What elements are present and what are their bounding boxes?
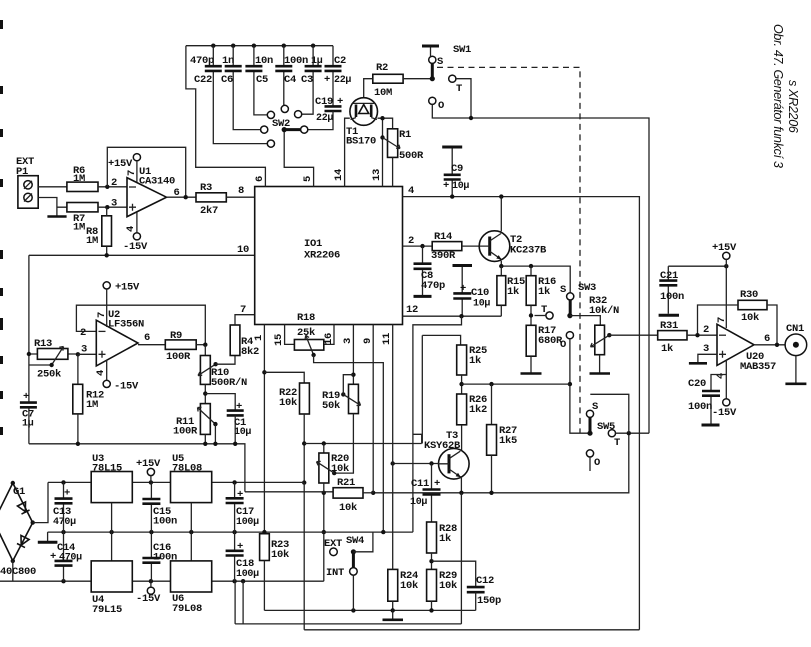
-15V terminal [147, 587, 154, 594]
svg-text:R18: R18 [297, 312, 315, 324]
+15V supply U2 [103, 282, 110, 289]
svg-text:1k: 1k [538, 286, 550, 298]
svg-text:10µ: 10µ [473, 299, 490, 310]
resistor R16 1k [530, 266, 532, 276]
svg-text:7: 7 [240, 304, 246, 316]
svg-text:10k: 10k [400, 580, 418, 592]
pot R11 100R [200, 404, 210, 435]
transistor T2 KC237B [479, 231, 510, 262]
resistor R15 1k [500, 266, 502, 276]
svg-text:100R: 100R [173, 426, 198, 438]
svg-text:250k: 250k [37, 369, 61, 381]
wire R8 stubs [106, 207, 108, 255]
svg-text:+: + [237, 489, 243, 501]
svg-text:+: + [460, 283, 466, 295]
svg-text:+: + [50, 551, 56, 563]
wire T3 emitter row [373, 433, 629, 493]
svg-text:Obr. 47. Generátor funkcí 3: Obr. 47. Generátor funkcí 3 [771, 24, 785, 168]
svg-text:150p: 150p [477, 595, 501, 607]
resistor R7 1M [67, 203, 98, 212]
capacitor C16 100n [150, 532, 152, 581]
svg-text:1k: 1k [469, 355, 481, 367]
svg-text:O: O [594, 457, 600, 469]
svg-text:500R: 500R [399, 150, 424, 162]
resistor R27 1k5 [491, 384, 493, 425]
svg-text:+: + [237, 541, 243, 553]
wire IC pin12 row [403, 315, 502, 317]
resistor R29 10k [427, 569, 437, 601]
svg-text:LF356N: LF356N [108, 319, 144, 331]
wire T3 emitter down [460, 493, 462, 624]
dashed link SW1 to SW5 [437, 67, 580, 433]
svg-text:3: 3 [342, 338, 354, 344]
ground R32 [590, 372, 611, 375]
wire row y443 right segment [304, 443, 422, 445]
svg-text:+: + [64, 488, 70, 500]
svg-text:100n: 100n [153, 516, 177, 528]
wire IC pin4 row [403, 197, 640, 630]
wire SW4 common to 0V rail [353, 532, 373, 552]
capacitor C7 1u [20, 403, 37, 408]
svg-text:4: 4 [95, 370, 107, 376]
resistor R24 10k [388, 569, 398, 601]
svg-text:10k: 10k [279, 397, 297, 409]
resistor R4 8k2 [230, 325, 240, 356]
svg-text:C20: C20 [688, 378, 706, 390]
svg-text:6: 6 [144, 332, 150, 344]
wire R9 to node [196, 344, 205, 346]
left page-edge tick marks [0, 20, 3, 435]
svg-text:KSY62B: KSY62B [424, 440, 461, 452]
svg-text:10k: 10k [741, 312, 759, 324]
svg-text:2: 2 [408, 235, 414, 247]
svg-text:100n: 100n [153, 552, 177, 564]
resistor R12 1M [73, 384, 83, 414]
op-amp U20 MAB357 [717, 324, 754, 365]
capacitor C18 100u [234, 532, 236, 581]
wire IC pin3 vertical / R19 [352, 325, 354, 385]
capacitor C14 470u [63, 532, 65, 581]
wire left vertical x29 [28, 255, 30, 443]
wire x304 down to bottom row [303, 483, 305, 630]
svg-text:40C800: 40C800 [0, 566, 36, 578]
wire pin1 row to R22 [264, 372, 304, 383]
transistor T1 BS170 [350, 98, 378, 126]
node pin2 [105, 185, 109, 189]
node U2 pin3 [76, 352, 80, 356]
svg-text:14: 14 [333, 169, 345, 181]
capacitor C1 10u [227, 411, 244, 416]
capacitor C8 470p [422, 246, 424, 295]
svg-text:SW1: SW1 [453, 44, 471, 56]
svg-text:12: 12 [406, 304, 418, 316]
wire SW3 common to R32 [570, 316, 600, 326]
svg-text:R1: R1 [399, 129, 411, 141]
svg-text:CN1: CN1 [786, 323, 804, 335]
svg-text:+15V: +15V [115, 282, 140, 294]
svg-text:INT: INT [326, 567, 344, 579]
0V mid rail [48, 531, 413, 533]
svg-text:10k: 10k [331, 463, 349, 475]
svg-text:10µ: 10µ [452, 181, 469, 192]
svg-text:11: 11 [381, 333, 393, 345]
wire SW3 O down to SW5 [570, 339, 588, 433]
svg-text:T: T [541, 304, 547, 316]
node U1 output [184, 195, 188, 199]
wire R18 wiper row to x383 [314, 355, 384, 532]
svg-text:+: + [434, 478, 440, 490]
svg-text:16: 16 [323, 333, 335, 345]
pot R1 500R [388, 129, 398, 158]
svg-text:10µ: 10µ [234, 427, 251, 438]
wire -rail stub x235 to y624 row [234, 581, 236, 624]
wire P1 bottom to ground and R7 [38, 198, 67, 216]
svg-text:1M: 1M [73, 222, 85, 234]
svg-text:13: 13 [371, 169, 383, 181]
svg-text:4: 4 [408, 185, 414, 197]
svg-text:3: 3 [111, 198, 117, 210]
svg-text:-15V: -15V [712, 407, 737, 419]
ground bottom [392, 610, 394, 618]
IC IO1 XR2206 [255, 187, 403, 325]
svg-text:4: 4 [125, 226, 137, 232]
wire R7 to U1 pin3 [98, 206, 127, 208]
svg-text:XR2206: XR2206 [304, 250, 340, 262]
svg-text:6: 6 [254, 176, 266, 182]
svg-text:O: O [438, 100, 444, 112]
wire IC pin11 vertical [392, 325, 394, 464]
wire P1 top to R6 [38, 186, 67, 188]
wire IC pin7 row [235, 315, 255, 325]
svg-text:100n: 100n [688, 401, 712, 413]
svg-text:100R: 100R [166, 351, 191, 363]
svg-text:5: 5 [302, 176, 314, 182]
wire IC pin9 vertical [372, 325, 374, 493]
svg-text:10k: 10k [339, 502, 357, 514]
wire U20 pin4 to -15V [725, 361, 727, 399]
svg-text:10: 10 [237, 244, 249, 256]
svg-text:C6: C6 [221, 74, 233, 86]
diode G1 lower [17, 535, 29, 547]
ground at P1 [47, 215, 66, 218]
svg-text:+15V: +15V [136, 458, 161, 470]
wire IC pin1 vertical [263, 325, 265, 534]
svg-text:100µ: 100µ [236, 517, 259, 528]
svg-text:IO1: IO1 [304, 238, 322, 250]
wire U1 feedback loop [107, 147, 185, 197]
svg-text:2: 2 [111, 177, 117, 189]
svg-text:C12: C12 [476, 575, 494, 587]
svg-text:-15V: -15V [136, 593, 161, 605]
capacitor C10 10u [453, 264, 473, 267]
wire R30 feedback loop [698, 305, 778, 345]
wire R3 to IC pin 8 [226, 196, 254, 198]
op-amp U1 CA3140 [127, 178, 167, 217]
wire U20 output [754, 344, 785, 346]
wire bridge bottom to -rail [12, 561, 14, 581]
wire R13 to U2 pin3 [78, 353, 96, 355]
svg-text:C11: C11 [411, 478, 429, 490]
svg-text:C9: C9 [451, 163, 463, 175]
svg-text:+: + [236, 401, 242, 413]
-15V supply U1 [133, 233, 140, 240]
capacitor C17 100u [234, 482, 236, 532]
wire bridge to +rail [33, 482, 48, 522]
op-amp U2 LF356N [96, 320, 138, 366]
resistor R28 1k [427, 522, 437, 553]
svg-text:S: S [560, 284, 566, 296]
svg-text:-15V: -15V [123, 241, 148, 253]
capacitor C13 470u [63, 482, 65, 532]
svg-text:SW3: SW3 [578, 282, 596, 294]
svg-text:1: 1 [253, 335, 265, 341]
pot R20 10k [323, 444, 325, 454]
svg-text:1µ: 1µ [22, 419, 34, 430]
svg-text:CA3140: CA3140 [139, 176, 175, 188]
wire U2 output to R9 [138, 344, 165, 346]
wire R6 to U1 pin2 [98, 186, 127, 188]
wire U20 pin3 to ground [698, 354, 717, 362]
svg-text:+: + [324, 74, 330, 86]
svg-text:680R: 680R [538, 335, 563, 347]
wire row y630 [304, 629, 639, 631]
wire SW5 T-net upper loop [590, 394, 629, 433]
svg-text:1k5: 1k5 [499, 435, 517, 447]
wire R2 left to T1 drain [364, 79, 373, 98]
svg-text:C4: C4 [284, 74, 296, 86]
pot R19 50k [349, 384, 359, 413]
svg-text:2: 2 [80, 327, 86, 339]
svg-text:C3: C3 [301, 74, 313, 86]
svg-text:10k: 10k [439, 580, 457, 592]
resistor R25 1k [457, 345, 467, 375]
svg-text:-15V: -15V [114, 381, 139, 393]
resistor R23 10k [260, 534, 270, 561]
wire U1 output to R3 [167, 196, 197, 198]
svg-text:2: 2 [703, 324, 709, 336]
wire R14 to T2 base [462, 245, 479, 247]
svg-text:MAB357: MAB357 [740, 361, 776, 373]
-15V rail [0, 580, 324, 582]
wire C21 to +15V [668, 265, 726, 267]
svg-text:1M: 1M [86, 399, 98, 411]
svg-text:79L08: 79L08 [172, 603, 202, 615]
diode G1 upper [17, 502, 29, 514]
wire U2 feedback loop [76, 305, 205, 345]
svg-text:7: 7 [126, 170, 138, 176]
wire -rail stub x243 to y624 row [242, 581, 244, 624]
wire R31 left jog to y443 net [422, 335, 460, 443]
svg-text:15: 15 [273, 334, 285, 346]
connector P1 [18, 176, 38, 209]
pot R10 500R/N [204, 345, 206, 356]
wire row y624 [235, 623, 461, 625]
svg-text:9: 9 [362, 338, 374, 344]
wire IC pin13 from T1/R1 wiper [378, 118, 393, 186]
capacitor C12 150p [467, 587, 485, 592]
capacitor C15 100n [150, 482, 152, 532]
wire row y492 left segment [245, 491, 333, 493]
wire pin10 row [29, 254, 255, 256]
svg-text:22µ: 22µ [334, 75, 351, 86]
wire IC pin6 from capacitor bank [186, 46, 266, 187]
svg-text:T: T [456, 83, 462, 95]
svg-text:s XR2206: s XR2206 [786, 80, 800, 133]
svg-text:79L15: 79L15 [92, 604, 122, 616]
svg-text:390R: 390R [431, 250, 456, 262]
svg-text:8: 8 [238, 185, 244, 197]
wire IC pin14 from T1 [345, 118, 350, 186]
svg-text:SW4: SW4 [346, 535, 364, 547]
wire branch to y443 row [413, 434, 422, 443]
regulator U4 79L15 [91, 561, 132, 592]
svg-text:1M: 1M [86, 235, 98, 247]
wire row y384 [462, 383, 570, 385]
wire bottom row y610 [264, 609, 475, 611]
svg-text:1k: 1k [661, 343, 673, 355]
wire R31 to U20 pin2 [687, 334, 717, 336]
transistor T3 KSY62B [439, 449, 470, 480]
svg-text:470µ: 470µ [53, 517, 76, 528]
svg-text:R2: R2 [376, 62, 388, 74]
ground 0V [47, 532, 49, 541]
svg-text:R30: R30 [740, 289, 758, 301]
svg-text:6: 6 [764, 333, 770, 345]
switch SW1 [422, 45, 439, 48]
wire pin12 branch down left [413, 316, 462, 532]
regulator U6 79L08 [171, 561, 212, 592]
svg-text:S: S [437, 56, 443, 68]
switch SW2 contacts [267, 111, 274, 118]
wire R26 to T3 collector [461, 425, 463, 453]
svg-text:8k2: 8k2 [241, 346, 259, 358]
switch SW2 wiper [282, 127, 287, 132]
svg-text:3: 3 [703, 343, 709, 355]
node R10 bottom [204, 384, 206, 403]
wire main left row y443 [29, 444, 245, 492]
svg-text:C5: C5 [256, 74, 268, 86]
svg-text:22µ: 22µ [316, 113, 333, 124]
wire R28 to C12 [432, 561, 476, 587]
svg-text:470p: 470p [421, 280, 445, 292]
svg-text:10k: 10k [271, 549, 289, 561]
svg-text:+15V: +15V [108, 158, 133, 170]
resistor R26 1k2 [457, 394, 467, 425]
svg-text:100n: 100n [660, 291, 684, 303]
wire to C1 top [205, 394, 235, 411]
svg-text:+: + [23, 391, 29, 403]
wire R15 bottom to pin12 row [500, 305, 502, 316]
svg-text:+: + [443, 180, 449, 192]
capacitor C20 100n [711, 375, 726, 424]
ground R17 [521, 372, 542, 375]
svg-text:500R/N: 500R/N [211, 377, 247, 389]
capacitor bank top rail [186, 45, 333, 47]
wire IC pin5 from SW2 wiper [284, 130, 313, 187]
svg-text:10µ: 10µ [410, 497, 427, 508]
svg-text:10M: 10M [374, 87, 392, 99]
resistor R22 10k [300, 383, 310, 414]
wire SW1 T and O to right rail [432, 79, 649, 434]
wire R10 wiper to R4 bottom [216, 356, 235, 365]
wire T2 collector to pin4 row [500, 197, 502, 232]
svg-text:1M: 1M [73, 173, 85, 185]
capacitor C11 10u [431, 464, 433, 523]
svg-text:C10: C10 [471, 287, 489, 299]
+15V rail [48, 481, 304, 483]
svg-text:T: T [614, 437, 620, 449]
wire R32 wiper to R31 [609, 334, 657, 336]
svg-text:10k/N: 10k/N [589, 305, 619, 317]
svg-text:1k: 1k [439, 533, 451, 545]
svg-text:7: 7 [716, 317, 728, 323]
svg-text:2k7: 2k7 [200, 205, 218, 217]
node pin3 [105, 205, 109, 209]
capacitor C9 10u [442, 146, 462, 149]
wire IC pin2 row [403, 245, 433, 247]
svg-text:1k2: 1k2 [469, 404, 487, 416]
svg-text:50k: 50k [322, 400, 340, 412]
wire R2 right to SW1 [403, 78, 432, 80]
svg-text:100µ: 100µ [236, 569, 259, 580]
svg-text:1k: 1k [507, 286, 519, 298]
wire T2 emitter row [501, 261, 570, 293]
-15V supply U2 [103, 380, 110, 387]
wire T3 base row [393, 463, 439, 465]
svg-text:KC237B: KC237B [510, 245, 547, 257]
svg-text:C22: C22 [194, 74, 212, 86]
svg-text:BS170: BS170 [346, 136, 376, 148]
svg-text:470µ: 470µ [59, 553, 82, 564]
svg-text:3: 3 [81, 344, 87, 356]
resistor R17 680R [526, 325, 536, 356]
switch SW3 [567, 293, 574, 300]
